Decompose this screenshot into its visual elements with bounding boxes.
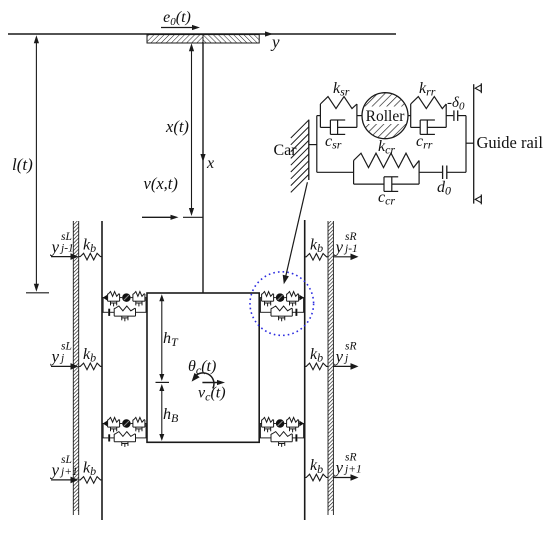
svg-text:hT: hT [163, 330, 179, 349]
support block hatched left half [147, 35, 203, 43]
svg-text:kb: kb [310, 457, 323, 476]
arrow y sj-1 right [333, 256, 352, 258]
inset right bus [465, 116, 467, 173]
wire bottom-left assembly row1 [102, 423, 108, 425]
contact wedge bottom-left assembly [103, 421, 108, 427]
svg-text:j-1: j-1 [59, 243, 74, 255]
rail support symbol bottom [475, 196, 481, 203]
gap element bottom-right assembly [295, 434, 297, 441]
spring-damper unit A top-right assembly [261, 294, 263, 301]
svg-text:Car: Car [274, 142, 298, 159]
gap element top-right assembly [295, 309, 297, 316]
svg-text:sL: sL [61, 454, 72, 466]
arrow v_c(t) [202, 382, 219, 384]
dimension hB [161, 386, 163, 438]
contact wedge top-left assembly [103, 295, 108, 301]
spring-damper unit B bottom-right assembly [286, 420, 288, 427]
roller wheel bottom-right assembly [276, 419, 285, 428]
svg-text:vc(t): vc(t) [198, 385, 226, 404]
svg-text:sR: sR [345, 452, 357, 464]
gap element bottom-left assembly [108, 434, 110, 441]
arrow y sj+1 left [51, 479, 73, 481]
svg-text:j+1: j+1 [343, 464, 362, 476]
left wall hatched [73, 221, 78, 511]
spring-damper kcr ccr box [353, 161, 355, 185]
vertical connectors bottom-left assembly [145, 424, 147, 438]
svg-text:j+1: j+1 [59, 466, 78, 478]
spring-damper unit A top-left assembly [132, 294, 134, 301]
spring kb right 1 [305, 254, 328, 261]
tick at x position [183, 216, 203, 218]
svg-text:sR: sR [345, 341, 357, 353]
right guide rail [304, 220, 306, 520]
contact wedge top-right assembly [299, 295, 304, 301]
spring-damper unit C top-left assembly [113, 308, 115, 316]
dimension hT [161, 297, 163, 379]
svg-text:e0(t): e0(t) [163, 9, 191, 28]
vertical connectors top-right assembly [259, 298, 261, 313]
wire top-right assembly row1 [259, 297, 261, 299]
svg-text:-δ0: -δ0 [447, 95, 465, 113]
roller wheel bottom-left assembly [122, 419, 130, 428]
arrow e0(t) excitation [161, 27, 193, 29]
spring-damper unit A bottom-left assembly [132, 420, 134, 427]
dimension line x(t) [191, 46, 193, 213]
svg-text:sL: sL [61, 341, 72, 353]
y axis arrow [265, 31, 273, 36]
svg-text:kb: kb [83, 236, 96, 255]
wire bottom-right assembly row1 [259, 423, 261, 425]
arrow y sj left [51, 365, 73, 367]
arrow y sj right [333, 365, 352, 367]
svg-text:kb: kb [83, 346, 96, 365]
svg-text:l(t): l(t) [12, 155, 33, 174]
svg-text:y: y [50, 461, 60, 480]
svg-text:y: y [50, 237, 60, 256]
inset guide rail line [473, 84, 475, 203]
rail support symbol top [475, 85, 481, 92]
svg-text:crr: crr [416, 133, 433, 152]
wire bus to kcr [317, 171, 354, 173]
gap element minus delta0 [453, 110, 455, 121]
svg-text:sR: sR [345, 231, 357, 243]
svg-text:kb: kb [310, 237, 323, 256]
wire bottom-left assembly row2 [102, 437, 108, 439]
spring kb left 1 [79, 253, 102, 260]
wire bottom-right assembly row2 [259, 437, 271, 439]
svg-text:j-1: j-1 [343, 243, 358, 255]
inset car wall hatch [291, 120, 309, 138]
spring-damper unit B bottom-left assembly [107, 420, 109, 427]
svg-text:kcr: kcr [378, 138, 395, 157]
vertical connectors top-left assembly [145, 298, 147, 313]
svg-text:y: y [270, 33, 280, 52]
spring-damper krr crr box [410, 104, 412, 127]
rope [202, 43, 204, 293]
dimension line l(t) [35, 38, 37, 289]
svg-text:sL: sL [61, 231, 72, 243]
spring kb right 2 [305, 363, 328, 370]
svg-text:x(t): x(t) [165, 117, 189, 136]
svg-text:y: y [334, 238, 344, 257]
svg-text:krr: krr [419, 80, 436, 99]
roller wheel top-left assembly [122, 293, 130, 302]
highlight circle around top-right assembly [250, 272, 314, 336]
svg-text:d0: d0 [437, 179, 451, 198]
roller wheel top-right assembly [276, 293, 285, 302]
right wall hatched [328, 221, 333, 511]
svg-text:csr: csr [325, 133, 342, 152]
spring-damper unit C top-right assembly [270, 308, 272, 316]
spring kb left 3 [79, 477, 102, 484]
svg-text:j: j [59, 352, 64, 364]
svg-text:y: y [50, 347, 60, 366]
car body [147, 293, 259, 442]
arrow v(x,t) [142, 216, 172, 218]
wire top-right assembly row2 [259, 311, 271, 313]
x axis arrowhead on rope [200, 154, 205, 162]
svg-text:y: y [334, 458, 344, 477]
spring-damper unit B top-right assembly [286, 294, 288, 301]
contact wedge bottom-right assembly [299, 421, 304, 427]
pointer arrow from inset to circled assembly [285, 182, 307, 278]
svg-text:y: y [334, 347, 344, 366]
svg-text:kb: kb [83, 460, 96, 479]
arc theta_c rotation [194, 373, 214, 389]
svg-text:x: x [206, 155, 214, 172]
spring-damper unit A bottom-right assembly [261, 420, 263, 427]
spring kb left 2 [79, 363, 102, 370]
svg-text:v(x,t): v(x,t) [144, 174, 178, 193]
svg-text:hB: hB [163, 406, 179, 425]
spring kb right 3 [305, 474, 328, 481]
gap element d0 [442, 166, 444, 180]
spring-damper unit B top-left assembly [107, 294, 109, 301]
ceiling line [8, 33, 396, 35]
spring-damper unit C bottom-left assembly [113, 434, 115, 442]
gap element top-left assembly [108, 309, 110, 316]
svg-text:Roller: Roller [366, 108, 406, 125]
svg-text:Guide rail: Guide rail [477, 133, 544, 152]
inset left bus [316, 116, 318, 173]
wire top-left assembly row2 [102, 311, 108, 313]
wire kcr to d0 [419, 171, 443, 173]
inset car wall line [308, 120, 310, 180]
center tick of car [156, 381, 170, 383]
tick bottom of l(t) [26, 292, 49, 294]
spring-damper ksr csr box [319, 104, 321, 127]
roller circle [362, 93, 408, 139]
svg-text:θc(t): θc(t) [188, 358, 216, 377]
vertical connectors bottom-right assembly [259, 424, 261, 438]
svg-text:ksr: ksr [333, 80, 350, 99]
svg-text:j: j [343, 352, 348, 364]
spring-damper unit C bottom-right assembly [270, 434, 272, 442]
wire top-left assembly row1 [102, 297, 108, 299]
support block hatched right half [203, 35, 259, 43]
wire car to bus [309, 144, 317, 146]
svg-text:kb: kb [310, 346, 323, 365]
arrow y sj-1 left [51, 256, 73, 258]
left guide rail [101, 221, 103, 520]
arrow y sj+1 right [333, 477, 352, 479]
